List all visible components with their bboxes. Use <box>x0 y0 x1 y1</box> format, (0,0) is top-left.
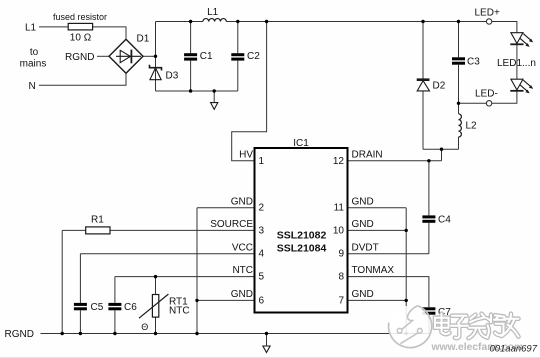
capacitor C1 <box>184 53 197 60</box>
wire C3 vertical top <box>458 22 460 58</box>
wire LED- to C3/L2 node <box>459 102 487 104</box>
wire GND pin 2 <box>197 207 255 209</box>
svg-text:LED+: LED+ <box>475 8 500 19</box>
wire D2 vertical top <box>422 22 424 80</box>
wire C5 vertical bottom <box>79 310 81 333</box>
svg-text:001aan697: 001aan697 <box>489 344 537 355</box>
svg-text:IC1: IC1 <box>293 138 309 149</box>
wire L1 input to fused resistor <box>39 26 68 28</box>
svg-text:5: 5 <box>259 272 265 283</box>
wire C2 vertical bottom <box>237 61 239 91</box>
capacitor C3 <box>452 57 465 64</box>
junction LED- node <box>457 102 460 105</box>
wire left filter vertical <box>155 22 157 92</box>
wire LED2 to LED- <box>492 90 517 103</box>
capacitor C2 <box>231 53 244 60</box>
svg-text:GND: GND <box>231 196 253 207</box>
svg-text:9: 9 <box>338 249 344 260</box>
wire filter ground stem <box>213 91 215 103</box>
svg-text:10 Ω: 10 Ω <box>70 33 92 44</box>
svg-text:GND: GND <box>231 289 253 300</box>
wire top rail L1 to LED+ <box>226 21 486 23</box>
svg-text:Θ: Θ <box>141 322 148 332</box>
wire HV riser <box>232 22 267 161</box>
svg-text:to: to <box>30 47 39 58</box>
wire RGND to bridge left <box>97 55 109 57</box>
capacitor C7 <box>422 307 435 314</box>
wire D2 vertical bottom <box>422 91 424 149</box>
junction RT1 rail <box>154 332 157 335</box>
wire right gnd vertical <box>405 208 407 334</box>
terminal LED- <box>486 101 491 106</box>
wire source vertical <box>61 230 63 333</box>
svg-text:C3: C3 <box>467 57 480 68</box>
svg-text:6: 6 <box>259 295 265 306</box>
wire drain riser <box>441 149 443 161</box>
junction drain riser <box>440 148 443 151</box>
zener diode D3 <box>150 65 162 80</box>
svg-text:HV: HV <box>239 149 253 160</box>
svg-text:NTC: NTC <box>232 265 253 276</box>
wire DVDT pin 9 <box>348 253 429 255</box>
wire fused resistor to bridge top <box>93 27 126 39</box>
junction pin10 gnd <box>405 229 408 232</box>
svg-text:SOURCE: SOURCE <box>210 219 253 230</box>
svg-text:2: 2 <box>259 203 265 214</box>
svg-text:8: 8 <box>338 272 344 283</box>
svg-text:RGND: RGND <box>5 329 34 340</box>
svg-text:N: N <box>29 81 36 92</box>
svg-text:C1: C1 <box>200 51 213 62</box>
wire C7 bottom <box>428 315 430 334</box>
junction C6 rail <box>113 332 116 335</box>
LED LED1 <box>510 33 533 47</box>
svg-text:3: 3 <box>259 225 265 236</box>
junction C1 top rail <box>189 20 192 23</box>
svg-text:C6: C6 <box>124 302 137 313</box>
resistor R1 <box>86 227 110 234</box>
junction C1 bottom rail <box>189 89 192 92</box>
junction pin6 gnd <box>195 299 198 302</box>
wire GND pin 7 <box>348 299 407 301</box>
svg-text:LED1...n: LED1...n <box>497 58 536 69</box>
svg-text:D1: D1 <box>137 34 150 45</box>
svg-text:SSL21084: SSL21084 <box>277 243 327 255</box>
wire SOURCE pin 3 left <box>62 229 85 231</box>
svg-text:mains: mains <box>20 59 47 70</box>
wire RT1 branch top <box>155 277 157 295</box>
inductor L2 <box>459 114 462 137</box>
wire L2 bottom <box>458 137 460 149</box>
svg-text:4: 4 <box>259 249 265 260</box>
svg-text:RGND: RGND <box>65 52 94 63</box>
op-amp/IC U1 box SSL21082 <box>255 148 348 313</box>
svg-text:D3: D3 <box>166 71 179 82</box>
svg-text:SSL21082: SSL21082 <box>277 230 327 242</box>
wire SOURCE pin 3 right of R1 <box>110 229 255 231</box>
wire TONMAX pin 8 to C7 <box>348 277 429 308</box>
svg-text:C5: C5 <box>91 302 104 313</box>
svg-text:VCC: VCC <box>232 242 253 253</box>
svg-text:1: 1 <box>259 156 265 167</box>
junction D2 top rail <box>421 20 424 23</box>
wire C1 vertical top <box>190 22 192 54</box>
wire C6 vertical bottom <box>114 310 116 333</box>
wire C4 branch bottom <box>428 223 430 254</box>
svg-text:11: 11 <box>334 203 345 214</box>
wire bridge right to filter rail <box>143 55 156 57</box>
inductor L1 <box>203 19 226 22</box>
junction pin7 gnd <box>405 299 408 302</box>
junction right gnd rail <box>405 332 408 335</box>
diode D2 <box>417 80 430 91</box>
bridge rectifier D1 <box>109 39 143 73</box>
junction filter ground <box>213 89 216 92</box>
svg-text:7: 7 <box>338 295 344 306</box>
wire LED+ to LED string <box>492 22 517 33</box>
wire DRAIN pin 12 <box>348 160 442 162</box>
wire GND pin 11 <box>348 207 407 209</box>
svg-text:GND: GND <box>352 219 374 230</box>
capacitor C6 <box>108 303 121 310</box>
svg-text:C4: C4 <box>438 214 451 225</box>
wire IC ground stem <box>266 334 268 347</box>
junction ground arrow rail <box>265 332 268 335</box>
wire GND pin 6 <box>197 299 255 301</box>
svg-text:DRAIN: DRAIN <box>352 149 383 160</box>
wire C5 vertical top <box>79 254 81 303</box>
resistor fused (fuse-resistor body) <box>68 23 92 30</box>
svg-text:L1: L1 <box>207 7 219 18</box>
wire top rail left of L1 <box>156 21 203 23</box>
junction HV riser top rail <box>265 20 268 23</box>
wire VCC pin 4 <box>80 253 254 255</box>
svg-text:D2: D2 <box>433 81 446 92</box>
svg-text:C2: C2 <box>247 51 260 62</box>
wire C6 vertical top <box>114 277 116 303</box>
svg-text:TONMAX: TONMAX <box>352 265 395 276</box>
junction bridge output <box>154 55 157 58</box>
junction left gnd rail <box>195 332 198 335</box>
ground (under IC, arrow) <box>263 346 270 353</box>
junction C2 top rail <box>236 20 239 23</box>
svg-text:12: 12 <box>333 156 345 167</box>
wire bottom RGND rail <box>41 333 429 335</box>
wire drain bottom horizontal <box>423 148 459 150</box>
wire C4 branch top <box>428 161 430 216</box>
svg-text:GND: GND <box>352 196 374 207</box>
svg-text:GND: GND <box>352 289 374 300</box>
junction C4 drain <box>427 159 430 162</box>
svg-text:NTC: NTC <box>169 306 190 317</box>
svg-text:LED-: LED- <box>475 89 498 100</box>
wire N to bridge bottom <box>39 73 126 85</box>
wire C1 vertical bottom <box>190 61 192 91</box>
LED LED2 <box>510 79 533 93</box>
wire GND pin 10 <box>348 229 407 231</box>
svg-text:L2: L2 <box>466 121 478 132</box>
junction NTC RT1 <box>154 275 157 278</box>
junction C3 top rail <box>457 20 460 23</box>
wire left gnd vertical <box>196 208 198 334</box>
junction C5 rail <box>79 332 82 335</box>
wire NTC pin 5 <box>115 276 255 278</box>
junction source rail <box>61 332 64 335</box>
terminal LED+ <box>486 19 491 24</box>
ground (filter) <box>211 103 218 110</box>
svg-text:DVDT: DVDT <box>352 242 379 253</box>
wire C3 to L2 <box>458 65 460 114</box>
wire filter bottom rail <box>156 90 238 92</box>
svg-text:L1: L1 <box>25 22 37 33</box>
thermistor RT1 body <box>139 294 168 318</box>
wire between LEDs <box>516 43 518 79</box>
svg-text:R1: R1 <box>91 215 104 226</box>
wire C2 vertical top <box>237 22 239 54</box>
svg-text:fused resistor: fused resistor <box>53 12 107 22</box>
svg-text:10: 10 <box>333 225 345 236</box>
capacitor C4 <box>422 215 435 222</box>
wire RT1 branch bottom <box>155 317 157 333</box>
capacitor C5 <box>74 303 87 310</box>
